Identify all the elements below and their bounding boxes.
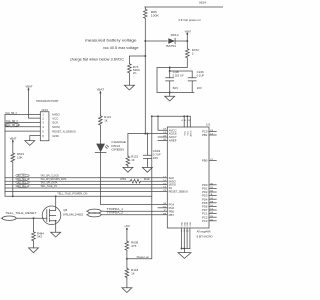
svg-text:SCK: SCK xyxy=(52,121,58,125)
svg-text:4.8 Volt power on: 4.8 Volt power on xyxy=(178,18,201,22)
svg-text:TAG_SPI_RETURN_DATA: TAG_SPI_RETURN_DATA xyxy=(40,177,66,181)
svg-text:GND: GND xyxy=(52,134,58,138)
svg-text:ATmega48A: ATmega48A xyxy=(197,229,211,233)
svg-text:PD0: PD0 xyxy=(202,183,208,187)
svg-text:PC3: PC3 xyxy=(202,219,208,223)
svg-text:GND: GND xyxy=(184,222,186,227)
svg-text:TELL_TALE_RESET: TELL_TALE_RESET xyxy=(6,211,37,215)
svg-text:1: 1 xyxy=(42,113,44,117)
svg-text:1K: 1K xyxy=(131,158,135,162)
svg-text:5: 5 xyxy=(42,129,44,133)
svg-text:R49: R49 xyxy=(144,177,150,181)
svg-text:ADC6: ADC6 xyxy=(169,132,178,136)
svg-text:PD3: PD3 xyxy=(202,194,208,198)
svg-text:+5V: +5V xyxy=(124,224,130,228)
svg-text:TAG_SPI_DATA: TAG_SPI_DATA xyxy=(40,180,57,184)
svg-text:PD1: PD1 xyxy=(202,187,208,191)
svg-text:PC0: PC0 xyxy=(202,130,208,134)
svg-text:0.1UF: 0.1UF xyxy=(197,74,205,78)
svg-text:475: 475 xyxy=(131,244,137,248)
svg-text:60V: 60V xyxy=(173,86,179,90)
svg-text:GND: GND xyxy=(187,222,189,227)
svg-text:PG4: PG4 xyxy=(169,203,175,207)
svg-text:VBAT: VBAT xyxy=(10,137,17,141)
svg-text:PB1: PB1 xyxy=(202,133,208,137)
svg-text:PD7: PD7 xyxy=(202,208,208,212)
svg-text:21: 21 xyxy=(186,230,190,232)
svg-text:TAG_SEL_3: TAG_SEL_3 xyxy=(17,174,29,178)
svg-text:AVCC: AVCC xyxy=(189,130,192,136)
svg-text:PC2: PC2 xyxy=(202,215,208,219)
svg-text:4: 4 xyxy=(42,125,44,129)
svg-text:Power on: Power on xyxy=(137,255,150,259)
svg-text:SCK: SCK xyxy=(169,176,175,180)
svg-text:GREEN: GREEN xyxy=(111,148,124,152)
svg-text:AREF: AREF xyxy=(169,139,177,143)
svg-text:MOSI: MOSI xyxy=(169,183,176,187)
svg-text:VBAT: VBAT xyxy=(25,84,32,88)
svg-text:TAG_SB_2: TAG_SB_2 xyxy=(6,123,18,127)
svg-text:0614: 0614 xyxy=(199,0,206,4)
svg-text:PD5: PD5 xyxy=(202,201,208,205)
svg-text:RESET_DEBUG: RESET_DEBUG xyxy=(169,190,189,194)
svg-text:U1: U1 xyxy=(206,123,211,127)
svg-text:1%: 1% xyxy=(133,71,137,75)
svg-text:TAG_SEL_4: TAG_SEL_4 xyxy=(17,177,29,181)
svg-text:PB6: PB6 xyxy=(169,209,175,213)
svg-text:PROGRAM PORT: PROGRAM PORT xyxy=(36,99,59,103)
svg-text:VBAT: VBAT xyxy=(185,29,192,33)
svg-text:TAG_SEL_2: TAG_SEL_2 xyxy=(17,184,29,188)
svg-text:8 BIT MICRO: 8 BIT MICRO xyxy=(197,235,214,239)
svg-text:TAG_SB_3: TAG_SB_3 xyxy=(6,119,18,123)
svg-text:GND: GND xyxy=(182,222,184,227)
svg-text:VCC: VCC xyxy=(184,131,186,136)
svg-text:SS: SS xyxy=(169,186,173,190)
svg-text:1K: 1K xyxy=(104,118,108,122)
svg-text:342: 342 xyxy=(37,235,43,239)
svg-text:PD2: PD2 xyxy=(202,190,208,194)
svg-text:MISO: MISO xyxy=(169,179,176,183)
svg-text:R53: R53 xyxy=(120,177,126,181)
svg-text:6: 6 xyxy=(42,134,44,138)
svg-text:vcc 40.5 max voltage: vcc 40.5 max voltage xyxy=(103,46,139,50)
svg-text:0.022 UF: 0.022 UF xyxy=(173,74,184,78)
svg-text:AVCC: AVCC xyxy=(169,128,177,132)
svg-text:16V: 16V xyxy=(197,86,202,90)
svg-text:GND: GND xyxy=(190,222,192,227)
svg-text:18: 18 xyxy=(188,120,192,122)
svg-text:2: 2 xyxy=(192,52,194,56)
svg-text:PD6: PD6 xyxy=(202,205,208,209)
svg-text:PB0: PB0 xyxy=(202,159,208,163)
svg-text:D614: D614 xyxy=(171,33,179,37)
svg-text:PB7: PB7 xyxy=(169,213,175,217)
svg-text:2: 2 xyxy=(42,116,44,120)
svg-text:16V: 16V xyxy=(153,156,159,160)
svg-text:1K: 1K xyxy=(131,271,135,275)
svg-text:100K: 100K xyxy=(151,14,159,18)
svg-text:PG6: PG6 xyxy=(169,206,175,210)
svg-text:charge flat when below 3.8VDC: charge flat when below 3.8VDC xyxy=(70,58,125,62)
svg-text:3: 3 xyxy=(42,121,44,125)
svg-text:TAG_SPI_CLOCK: TAG_SPI_CLOCK xyxy=(40,174,59,178)
svg-text:ADC7: ADC7 xyxy=(169,135,178,139)
svg-text:10K: 10K xyxy=(17,156,23,160)
svg-text:measured battery voltage: measured battery voltage xyxy=(85,38,137,42)
svg-text:PC1: PC1 xyxy=(202,212,208,216)
svg-text:TAG_SEL_5: TAG_SEL_5 xyxy=(17,180,29,184)
svg-text:VCC: VCC xyxy=(187,131,189,136)
svg-text:TAG_SB_4: TAG_SB_4 xyxy=(5,111,17,115)
svg-text:RESET_N_DEBUG: RESET_N_DEBUG xyxy=(52,129,76,133)
svg-text:TELL_TALE_CS: TELL_TALE_CS xyxy=(40,184,57,188)
svg-text:PD4: PD4 xyxy=(202,197,208,201)
svg-text:TTRPDA_1: TTRPDA_1 xyxy=(107,207,124,211)
svg-text:VBAT: VBAT xyxy=(97,88,105,92)
svg-text:J134: J134 xyxy=(41,108,48,112)
svg-text:BAT54: BAT54 xyxy=(166,44,176,48)
svg-text:IRLML2402: IRLML2402 xyxy=(63,212,83,216)
svg-text:TTRPDA_2: TTRPDA_2 xyxy=(107,211,124,215)
svg-text:TELL_TALE_POWER_ON: TELL_TALE_POWER_ON xyxy=(57,192,87,196)
